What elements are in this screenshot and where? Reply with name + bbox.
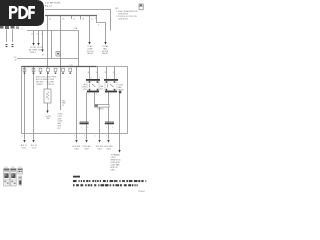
svg-text:4: 4: [42, 34, 43, 36]
svg-text:UNIT: UNIT: [46, 118, 50, 120]
svg-text:5: 5: [84, 136, 85, 138]
svg-text:2: 2: [22, 136, 23, 138]
svg-text:RELAY: RELAY: [118, 88, 124, 91]
svg-text:CIRCUIT A: CIRCUIT A: [118, 12, 128, 15]
svg-text:4: 4: [95, 136, 96, 138]
svg-text:199804: 199804: [138, 191, 146, 193]
svg-text:15: 15: [73, 18, 75, 20]
svg-text:Fig 1-2: Fig 1-2: [45, 5, 53, 7]
svg-text:RELAY: RELAY: [87, 52, 93, 55]
svg-text:CONN 12: CONN 12: [36, 84, 43, 86]
svg-text:8: 8: [32, 34, 33, 36]
svg-text:30: 30: [113, 72, 115, 74]
svg-text:G101: G101: [22, 148, 26, 150]
svg-text:FUSE 3: FUSE 3: [30, 52, 36, 54]
svg-text:G305: G305: [111, 169, 115, 171]
svg-text:86: 86: [105, 72, 107, 74]
svg-text:31: 31: [49, 18, 51, 20]
svg-text:G302: G302: [84, 149, 88, 151]
svg-text:G304: G304: [106, 149, 110, 151]
svg-text:RELAY: RELAY: [102, 52, 108, 55]
svg-text:18: 18: [82, 18, 84, 20]
svg-text:30: 30: [96, 72, 98, 74]
svg-text:ST: ST: [42, 54, 44, 56]
svg-text:DIODE 2: DIODE 2: [98, 108, 104, 110]
svg-text:12: 12: [91, 18, 93, 20]
svg-text:23: 23: [62, 18, 64, 20]
svg-text:6: 6: [37, 34, 38, 36]
svg-text:C21: C21: [70, 64, 73, 66]
svg-text:4: 4: [98, 25, 99, 27]
svg-text:CIRCUIT B: CIRCUIT B: [118, 19, 128, 21]
svg-text:16: 16: [15, 59, 17, 61]
svg-text:86: 86: [88, 72, 90, 74]
svg-text:G303: G303: [97, 149, 101, 151]
svg-text:G301: G301: [74, 149, 78, 151]
svg-text:3: 3: [74, 136, 75, 138]
svg-text:1.5L MFI SOHC: 1.5L MFI SOHC: [45, 3, 61, 5]
svg-text:3: 3: [95, 18, 96, 20]
svg-text:16: 16: [62, 105, 64, 107]
svg-text:CONN 14: CONN 14: [47, 84, 54, 86]
svg-text:6: 6: [106, 136, 107, 138]
svg-text:1: 1: [31, 136, 32, 138]
svg-text:G102: G102: [32, 148, 36, 150]
